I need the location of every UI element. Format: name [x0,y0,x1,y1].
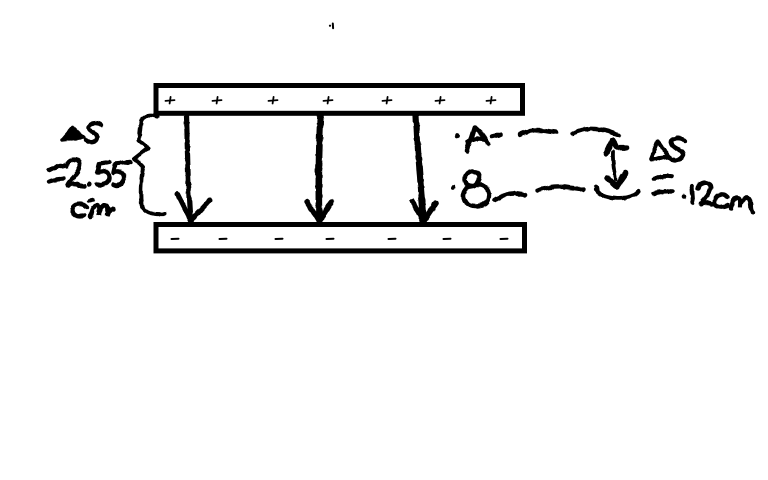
field arrow 3 (head) [412,201,436,222]
dashed level line from A [492,134,501,136]
point B dot [451,185,456,190]
label delta-S (left) [61,127,83,140]
label =2.55 (left) [49,165,64,181]
label cm (left) [72,204,86,216]
point B letter [462,171,488,205]
minus charges on bottom plate [172,238,508,240]
plus charges on top plate [166,97,496,104]
label delta-S (right) [651,141,669,159]
top plate (positive) [156,86,523,114]
field arrow 1 (head) [177,194,210,221]
field arrow 2 (line) [318,115,320,215]
curly brace for plate gap [134,115,165,214]
field arrow 3 (line) [416,115,423,214]
field arrow 2 (head) [307,202,331,222]
gap double arrow between A and B [606,140,628,154]
field arrow 1 (line) [186,115,190,214]
stray pen mark top center [329,24,333,29]
dashed level line from B [495,193,525,200]
point A dot [454,133,459,138]
bottom plate (negative) [156,225,525,251]
point A letter [467,127,488,151]
label =.12cm (right) [654,176,673,193]
smile arc under gap arrow [596,186,639,198]
